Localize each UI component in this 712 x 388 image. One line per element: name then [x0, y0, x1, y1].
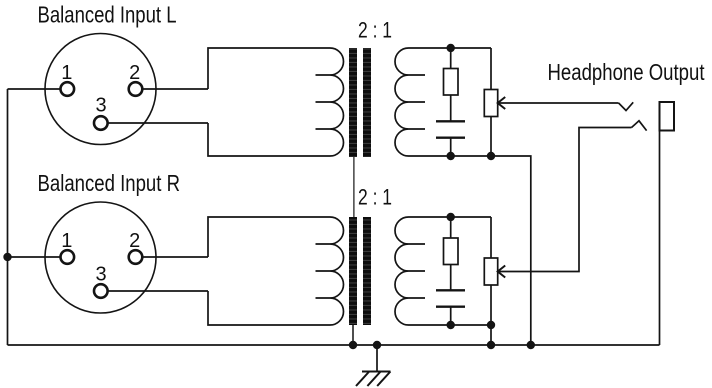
wire T1 secondary top to P1 [490, 48, 492, 90]
node T1 secondary bottom junction [487, 152, 495, 160]
potentiometer P2 [484, 258, 497, 285]
svg-text:1: 1 [61, 62, 72, 84]
P2 wiper arrowhead [498, 266, 506, 278]
wire T2 secondary top to P2 [490, 217, 492, 258]
wire ground bus [8, 344, 660, 346]
node C2 bottom junction [447, 321, 455, 329]
wire P1 wiper to tip contact [498, 102, 619, 104]
transformer T1 primary winding [208, 48, 344, 156]
wire R1 to C1 [450, 95, 452, 121]
node ground stub junction [373, 341, 381, 349]
capacitor C1 top plate [436, 120, 465, 122]
J2 pin 3 [94, 284, 108, 298]
wire P2 wiper to ring contact [498, 128, 632, 272]
node T1 secondary top junction [447, 44, 455, 52]
node C1 bottom junction [447, 152, 455, 160]
wire left bus [7, 89, 9, 345]
wire J2 pin1 to left bus [8, 256, 61, 258]
svg-text:2: 2 [129, 62, 140, 84]
svg-text:3: 3 [95, 263, 106, 285]
svg-text:2 : 1: 2 : 1 [358, 185, 392, 210]
svg-text:2: 2 [129, 230, 140, 252]
capacitor C2 bottom plate [436, 306, 465, 308]
svg-text:3: 3 [95, 95, 106, 117]
transformer T1 secondary winding [395, 48, 491, 156]
resistor R1 [444, 69, 459, 96]
svg-text:2 : 1: 2 : 1 [358, 18, 392, 43]
wire J2 pin3 to T2 primary [108, 290, 208, 292]
transformer T1 core bar 2 [363, 48, 371, 157]
headphone jack plug body [660, 102, 675, 131]
jack tip contact spring [619, 102, 634, 110]
J1 pin 1 [61, 82, 75, 96]
wire T2 secondary bottom to ground bus [490, 325, 492, 345]
svg-text:Balanced Input R: Balanced Input R [38, 170, 181, 196]
node ground bus junction core [349, 341, 357, 349]
wire core ground link T1 to T2 [353, 157, 355, 217]
wire ground stub [376, 345, 378, 372]
J1 pin 3 [94, 116, 108, 130]
wire jack sleeve riser [659, 131, 661, 346]
node T2 secondary bottom junction [487, 321, 495, 329]
jack ring contact spring [632, 121, 647, 131]
node left bus junction [3, 253, 11, 261]
wire T2 core to ground bus [352, 325, 354, 345]
wire C2 bottom lead [450, 307, 452, 325]
node ground bus junction right drop [527, 341, 535, 349]
wire R1 top lead [450, 48, 452, 69]
P1 wiper arrowhead [498, 97, 506, 109]
wire T1 secondary bottom to right drop [491, 156, 531, 345]
connector J1 XLR Balanced Input L [45, 34, 156, 145]
ground symbol [356, 372, 391, 387]
svg-text:Balanced Input L: Balanced Input L [38, 2, 177, 28]
transformer T2 core bar 1 [349, 217, 357, 325]
wire J1 pin2 to T1 primary [142, 88, 208, 90]
potentiometer P1 [484, 90, 497, 117]
wire C1 bottom lead [450, 138, 452, 156]
J1 pin 2 [129, 82, 143, 96]
J2 pin 1 [61, 250, 75, 264]
transformer T2 primary winding [208, 217, 344, 325]
connector J2 XLR Balanced Input R [45, 202, 156, 313]
svg-text:1: 1 [61, 230, 72, 252]
wire P1 bottom lead [490, 117, 492, 157]
wire R2 top lead [450, 217, 452, 238]
capacitor C1 bottom plate [436, 136, 465, 138]
resistor R2 [444, 238, 459, 265]
transformer T2 core bar 2 [363, 217, 371, 325]
node T2 secondary top junction [447, 213, 455, 221]
wire J1 pin1 to left bus [8, 88, 61, 90]
wire P2 bottom lead [490, 285, 492, 325]
wire R2 to C2 [450, 265, 452, 291]
transformer T1 core bar 1 [349, 48, 357, 157]
capacitor C2 top plate [436, 289, 465, 291]
node ground bus junction below T2 [487, 341, 495, 349]
J2 pin 2 [129, 250, 143, 264]
transformer T2 secondary winding [395, 217, 491, 325]
svg-text:Headphone Output: Headphone Output [548, 59, 705, 85]
wire J2 pin2 to T2 primary [142, 256, 208, 258]
wire J1 pin3 to T1 primary [108, 122, 208, 124]
